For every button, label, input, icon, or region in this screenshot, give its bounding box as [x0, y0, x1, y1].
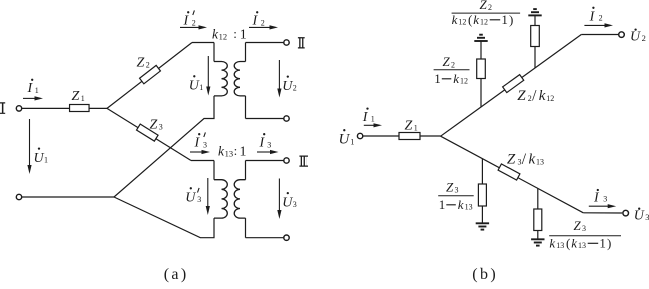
svg-text:1: 1 — [240, 145, 247, 160]
svg-text:3: 3 — [645, 212, 649, 222]
svg-text:Z: Z — [517, 88, 526, 104]
svg-text:1: 1 — [81, 94, 85, 103]
svg-text:U: U — [339, 132, 351, 148]
svg-text:1: 1 — [199, 83, 203, 92]
svg-text:12: 12 — [219, 32, 228, 42]
svg-text:1: 1 — [240, 28, 247, 43]
svg-text:13: 13 — [465, 203, 473, 212]
svg-text:Z: Z — [72, 89, 80, 104]
svg-text:Z: Z — [150, 117, 158, 132]
svg-text:k: k — [473, 12, 479, 27]
svg-text:): ) — [509, 12, 513, 27]
svg-text:Z: Z — [507, 152, 516, 168]
svg-text:3: 3 — [203, 141, 207, 150]
svg-text:3: 3 — [159, 123, 163, 132]
svg-text:2: 2 — [261, 19, 265, 28]
svg-text:1: 1 — [439, 197, 446, 212]
svg-text:k: k — [539, 88, 546, 104]
svg-text:k: k — [452, 12, 458, 27]
svg-text:12: 12 — [480, 18, 488, 27]
svg-text:Z: Z — [443, 54, 451, 69]
svg-text:13: 13 — [556, 241, 564, 250]
svg-text:U: U — [634, 209, 645, 224]
svg-text:k: k — [458, 197, 464, 212]
svg-text:12: 12 — [460, 77, 468, 86]
svg-text:U: U — [185, 191, 196, 206]
svg-text:Z: Z — [480, 0, 488, 12]
svg-text:Z: Z — [574, 218, 582, 233]
svg-text:U: U — [630, 30, 641, 45]
svg-text::: : — [233, 26, 237, 41]
svg-text:(a): (a) — [164, 266, 189, 283]
svg-text:U: U — [282, 79, 293, 94]
svg-text:3: 3 — [293, 200, 297, 209]
svg-text:k: k — [571, 235, 577, 250]
svg-text:/: / — [532, 88, 537, 105]
svg-text:3: 3 — [603, 194, 607, 203]
svg-text:k: k — [529, 152, 536, 168]
svg-text:13: 13 — [578, 241, 586, 250]
svg-text:Z: Z — [405, 118, 413, 133]
svg-text:Z: Z — [446, 179, 454, 194]
svg-text:(: ( — [566, 235, 570, 250]
svg-text:2: 2 — [146, 61, 150, 70]
svg-text:k: k — [549, 235, 555, 250]
svg-text:Z: Z — [137, 56, 145, 71]
svg-text:12: 12 — [546, 94, 554, 103]
svg-text:3: 3 — [197, 195, 201, 204]
svg-text:2: 2 — [451, 60, 455, 69]
svg-text:1: 1 — [501, 12, 508, 27]
svg-text:12: 12 — [458, 18, 466, 27]
svg-text:2: 2 — [488, 3, 492, 12]
svg-text:1: 1 — [350, 136, 354, 146]
svg-text:1: 1 — [599, 235, 606, 250]
svg-text:3: 3 — [455, 186, 459, 195]
svg-text:13: 13 — [225, 149, 234, 159]
svg-text:U: U — [282, 195, 293, 210]
svg-text:(b): (b) — [472, 266, 498, 283]
svg-text:U: U — [34, 151, 45, 166]
svg-text:2: 2 — [192, 19, 196, 28]
svg-text::: : — [234, 143, 238, 158]
svg-text:2: 2 — [642, 33, 646, 43]
svg-text:2: 2 — [293, 84, 297, 93]
svg-text:/: / — [522, 151, 527, 168]
svg-text:(: ( — [468, 12, 472, 27]
svg-text:): ) — [607, 235, 611, 250]
svg-text:1: 1 — [35, 86, 39, 95]
svg-text:1: 1 — [44, 156, 48, 165]
svg-text:2: 2 — [599, 14, 603, 23]
svg-text:3: 3 — [582, 224, 586, 233]
svg-text:3: 3 — [267, 141, 271, 150]
svg-text:U: U — [189, 79, 200, 94]
svg-text:1: 1 — [434, 71, 441, 86]
svg-text:1: 1 — [414, 124, 418, 133]
svg-text:k: k — [453, 71, 459, 86]
svg-text:1: 1 — [371, 115, 375, 124]
svg-text:13: 13 — [536, 158, 544, 167]
